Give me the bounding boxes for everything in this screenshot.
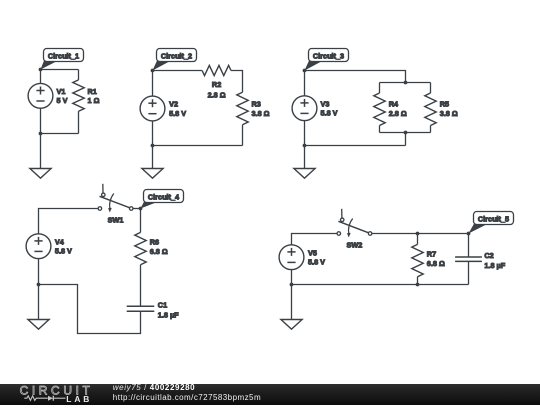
svg-text:V1: V1 [57, 87, 66, 96]
junction [151, 144, 155, 148]
svg-text:LAB: LAB [66, 394, 92, 404]
node Circuit_3 [305, 49, 349, 71]
junction [139, 207, 143, 211]
svg-text:http://circuitlab.com/c727583b: http://circuitlab.com/c727583bpmz5m [113, 393, 261, 402]
wire [304, 146, 306, 169]
junction [303, 69, 307, 73]
svg-text:2.8 Ω: 2.8 Ω [208, 90, 226, 99]
wire [418, 233, 469, 235]
wire [152, 146, 154, 169]
voltage source V5 5.8 V [279, 245, 325, 270]
wire [41, 133, 79, 135]
capacitor C1 1.8 uF [127, 301, 179, 320]
svg-text:weiy75 / 400229280: weiy75 / 400229280 [113, 384, 195, 392]
svg-text:5.8 V: 5.8 V [308, 258, 325, 267]
svg-text:Circuit_2: Circuit_2 [161, 52, 192, 61]
wire [38, 285, 40, 320]
voltage source V4 5.8 V [26, 234, 72, 259]
wire [38, 259, 40, 285]
svg-text:SW2: SW2 [346, 241, 362, 250]
svg-text:R6: R6 [150, 238, 159, 247]
resistor R2 2.8 Ohm [202, 65, 231, 99]
svg-text:V2: V2 [169, 100, 178, 109]
node Circuit_4 [141, 190, 184, 209]
junction [37, 283, 41, 287]
svg-text:R3: R3 [252, 100, 261, 109]
node Circuit_1 [41, 49, 84, 70]
svg-text:1 Ω: 1 Ω [88, 96, 100, 105]
junction [416, 283, 420, 287]
wire [39, 209, 99, 234]
wire [292, 234, 338, 245]
wire [430, 126, 432, 133]
wire [153, 70, 203, 72]
svg-text:5.8 V: 5.8 V [169, 109, 186, 118]
wire [379, 83, 381, 94]
voltage source V1 5 V [28, 83, 67, 108]
svg-text:3.8 Ω: 3.8 Ω [440, 109, 458, 118]
svg-text:C2: C2 [484, 251, 493, 260]
svg-text:SW1: SW1 [108, 216, 124, 225]
svg-text:1.8 µF: 1.8 µF [158, 310, 179, 319]
wire [292, 284, 469, 286]
svg-text:Circuit_1: Circuit_1 [48, 52, 79, 61]
junction [151, 69, 155, 73]
resistor R7 6.8 Ohm [412, 244, 445, 276]
resistor R5 3.8 Ohm [425, 93, 458, 126]
junction [404, 131, 408, 135]
junction [39, 132, 43, 136]
ground [281, 320, 302, 330]
resistor R4 2.8 Ohm [374, 93, 407, 126]
svg-text:1.8 µF: 1.8 µF [484, 261, 505, 270]
wire [305, 71, 406, 83]
wire [430, 83, 432, 94]
ground [30, 169, 51, 179]
junction [404, 81, 408, 85]
wire [41, 69, 79, 71]
wire [133, 208, 141, 210]
svg-text:R7: R7 [427, 250, 436, 259]
junction [39, 68, 43, 72]
wire [291, 270, 293, 285]
ground [28, 320, 49, 330]
svg-text:5.8 V: 5.8 V [321, 109, 338, 118]
junction [416, 232, 420, 236]
svg-text:5.8 V: 5.8 V [55, 247, 72, 256]
svg-text:6.8 Ω: 6.8 Ω [427, 259, 445, 268]
svg-text:R1: R1 [88, 87, 97, 96]
ground [142, 169, 163, 179]
wire [468, 261, 470, 284]
node Circuit_5 [469, 212, 514, 234]
ground [294, 169, 315, 179]
switch SW2 [337, 209, 372, 250]
wire [40, 108, 42, 133]
wire [152, 121, 154, 146]
svg-text:6.8 Ω: 6.8 Ω [150, 247, 168, 256]
svg-text:5 V: 5 V [57, 96, 68, 105]
wire [39, 285, 141, 334]
wire [78, 70, 80, 134]
wire [152, 71, 154, 97]
capacitor C2 1.8 uF [455, 251, 506, 270]
wire [372, 233, 418, 235]
resistor R6 6.8 Ohm [135, 232, 168, 264]
svg-text:Circuit_3: Circuit_3 [313, 52, 344, 61]
resistor R3 3.8 Ohm [237, 92, 270, 125]
svg-text:3.8 Ω: 3.8 Ω [252, 109, 270, 118]
wire [380, 132, 431, 134]
svg-text:R4: R4 [389, 100, 399, 109]
switch SW1 [98, 184, 133, 225]
junction [303, 144, 307, 148]
wire [40, 70, 42, 84]
wire [40, 134, 42, 169]
svg-text:Circuit_4: Circuit_4 [148, 193, 180, 202]
svg-text:R5: R5 [440, 100, 449, 109]
wire [304, 121, 306, 146]
junction [290, 283, 294, 287]
svg-text:2.8 Ω: 2.8 Ω [389, 109, 407, 118]
wire [380, 82, 431, 84]
voltage source V3 5.8 V [292, 96, 338, 121]
wire [379, 126, 381, 133]
wire [153, 145, 243, 147]
svg-text:V4: V4 [55, 237, 65, 246]
svg-text:V3: V3 [321, 99, 330, 108]
resistor R1 1 Ohm [73, 80, 100, 111]
voltage source V2 5.8 V [140, 96, 186, 121]
wire [417, 234, 419, 245]
svg-text:Circuit_5: Circuit_5 [478, 215, 509, 224]
svg-text:C1: C1 [158, 301, 167, 310]
wire [405, 133, 407, 146]
wire [231, 71, 243, 93]
wire [140, 265, 142, 307]
wire [291, 285, 293, 320]
wire [242, 125, 244, 146]
node Circuit_2 [153, 49, 197, 71]
wire [417, 277, 419, 285]
junction [467, 232, 471, 236]
wire [304, 71, 306, 96]
wire [140, 209, 142, 233]
svg-text:R2: R2 [212, 80, 221, 89]
svg-text:V5: V5 [308, 248, 317, 257]
wire [305, 145, 406, 147]
wire [468, 234, 470, 258]
